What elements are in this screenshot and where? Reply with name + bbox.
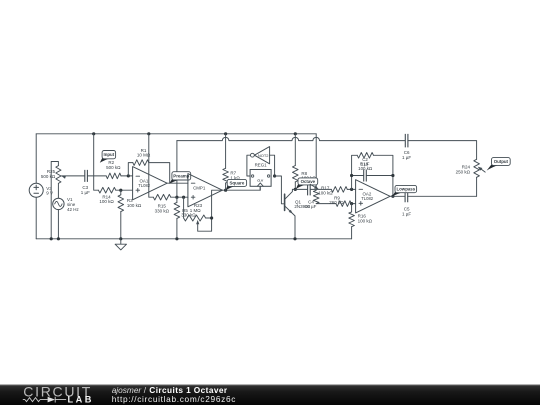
junction fb right [391,174,394,177]
resistor R17 [316,187,355,193]
label C5 1uF [402,207,411,217]
resistor R9 [336,201,356,207]
svg-text:1 µF: 1 µF [81,190,90,195]
wire wiper R25 to C3 [62,175,85,177]
svg-text:100 kΩ: 100 kΩ [99,199,114,204]
wire CMP1 out to R23 [212,190,223,218]
label R24 250k [456,165,471,175]
wire NOT2 out to REG1 D [247,155,251,176]
junction rail1/R8 [294,132,297,135]
potentiometer R24 [474,159,485,196]
flag Lowpass [392,185,416,196]
resistor R5 330k [174,197,180,239]
battery V3 [29,183,43,197]
label R16 100k [358,214,373,224]
label R25 500k [41,169,56,179]
junction R7/out [224,189,227,192]
svg-text:http://circuitlab.com/c296z6c: http://circuitlab.com/c296z6c [112,394,236,404]
wire R14 to OA1+ [116,189,133,191]
wire OA2 out [390,195,405,197]
label R8 [301,171,316,181]
svg-text:CLK: CLK [257,179,264,183]
svg-text:1 µF: 1 µF [402,211,411,216]
svg-text:Output: Output [494,159,509,164]
junction Q node [273,174,276,177]
wire C6 to R24 top [408,141,477,160]
junction OA1+ node [119,189,122,192]
capacitor C4 [308,183,311,195]
flag Input [100,151,116,163]
label C3 1uF [81,185,90,195]
svg-text:260 kΩ: 260 kΩ [329,200,344,205]
label R17 100k [318,186,333,196]
resistor R2 [106,173,121,179]
junction rail1/R7 [224,132,227,135]
label R14 100k [99,194,114,204]
junction rail1/R14 [92,132,95,135]
wire C3 to R2 [87,175,106,177]
label C2 R18 [358,157,373,171]
flag Output [487,158,511,171]
capacitor C5 [405,190,408,202]
label Q1 2N3904 [294,199,310,208]
9V top rail [36,133,316,135]
junction collector node [294,188,297,191]
label C6 1uF [402,150,411,160]
transistor Q1 [285,189,295,238]
svg-text:LAB: LAB [68,395,94,405]
svg-text:Input: Input [104,152,115,157]
svg-text:100 kΩ: 100 kΩ [358,166,373,171]
svg-text:100 kΩ: 100 kΩ [127,203,142,208]
svg-text:TL082: TL082 [361,196,374,201]
capacitor C3 [85,170,88,182]
wire 9V drop right [315,134,317,190]
potentiometer R25 [51,162,66,239]
wire Q to base [275,176,285,204]
wire collector to C4 [292,188,307,190]
wire REG1 clk [259,186,261,190]
svg-text:Preamp: Preamp [173,173,189,178]
capacitor C2 [364,170,367,182]
svg-text:500 kΩ: 500 kΩ [106,165,121,170]
resistor R3 [118,190,124,239]
svg-text:330 kΩ: 330 kΩ [155,208,170,213]
trimmer R10 [310,184,319,203]
svg-text:250 kΩ: 250 kΩ [456,169,471,174]
wire R25 to V1 [57,183,59,198]
resistor R1 [133,160,149,166]
junction V1/gnd [57,237,60,240]
flag Octave [296,178,318,189]
junction R3/gnd [119,237,122,240]
label R7 [230,171,240,181]
svg-text:CMP1: CMP1 [193,186,206,191]
resistor R7 pullup [223,134,229,190]
label R3 100k [127,198,142,208]
svg-text:Octave: Octave [301,179,316,184]
junction R23 left [182,196,185,199]
potentiometer R23 [184,197,212,231]
junction OA2 out [391,195,394,198]
wire R9 row [316,203,336,205]
wire R2 to OA1- [121,175,133,177]
junction OA2- node [350,188,353,191]
wire 9V to R15 [149,134,154,197]
resistor R15 [153,194,171,200]
wire C5 to R24 [408,195,477,197]
label R1 10M [137,148,151,158]
svg-text:42 Hz: 42 Hz [67,207,80,212]
wire V1 to gnd [57,210,59,239]
svg-text:NOT2: NOT2 [258,153,269,158]
wire R1 to output [149,163,170,184]
wire R15 to CMP1+ [171,196,188,198]
label V1 sine 42Hz [67,197,80,212]
inverter NOT2 [251,147,270,164]
junction R25/gnd [50,237,53,240]
junction OA2+ node [350,202,353,205]
junction bias/R15 [175,196,178,199]
junction R23 right [210,216,213,219]
svg-text:1 µF: 1 µF [402,155,411,160]
wire OA1 out to CMP1 [167,182,188,184]
OA2 feedback loop [352,153,393,197]
wire 9V to R14 [94,134,99,190]
svg-text:REG1: REG1 [255,162,268,167]
comparator CMP1 [188,174,223,207]
svg-text:100 kΩ: 100 kΩ [358,219,373,224]
resistor R16 [349,204,355,239]
label V3 9V [46,186,53,196]
label C4 [305,200,317,209]
resistor R14 [98,187,115,193]
svg-text:Lowpass: Lowpass [396,187,415,192]
label R15 330k [155,204,170,214]
junction R5/gnd [175,237,178,240]
feedback wire R1 [128,163,133,176]
label R23 1M [190,203,203,213]
wire CMP1 out [222,186,260,190]
label R5 330k [181,208,196,218]
label R2 500k [106,160,121,170]
junction Q1/gnd [293,237,296,240]
ground rail [36,238,351,240]
wire left supply upper [35,134,37,184]
svg-text:500 kΩ: 500 kΩ [41,174,56,179]
wire left supply lower [35,197,37,239]
flag Square [226,179,247,190]
wire NOT2 in from Q [270,155,275,176]
source V1 sine [53,198,64,209]
wire C4 to junction [310,188,316,190]
svg-text:10 µF: 10 µF [305,204,317,209]
junction rail1/R15 [147,132,150,135]
svg-text:1 MΩ: 1 MΩ [190,208,202,213]
ground symbol [115,239,126,250]
bias rail wire [177,137,405,197]
resistor R8 [293,134,299,190]
flip-flop REG1 [250,170,271,187]
junction OA1- node [127,174,130,177]
flag Preamp [169,172,190,184]
op-amp OA2 [356,180,391,213]
svg-text:9 V: 9 V [46,191,53,196]
op-amp OA1 [133,167,168,200]
capacitor C6 [405,134,408,148]
label R9 260k [329,195,344,205]
svg-text:Square: Square [230,180,245,185]
junction fb left [350,174,353,177]
label REG1 [255,162,268,167]
svg-text:100 kΩ: 100 kΩ [318,190,333,195]
